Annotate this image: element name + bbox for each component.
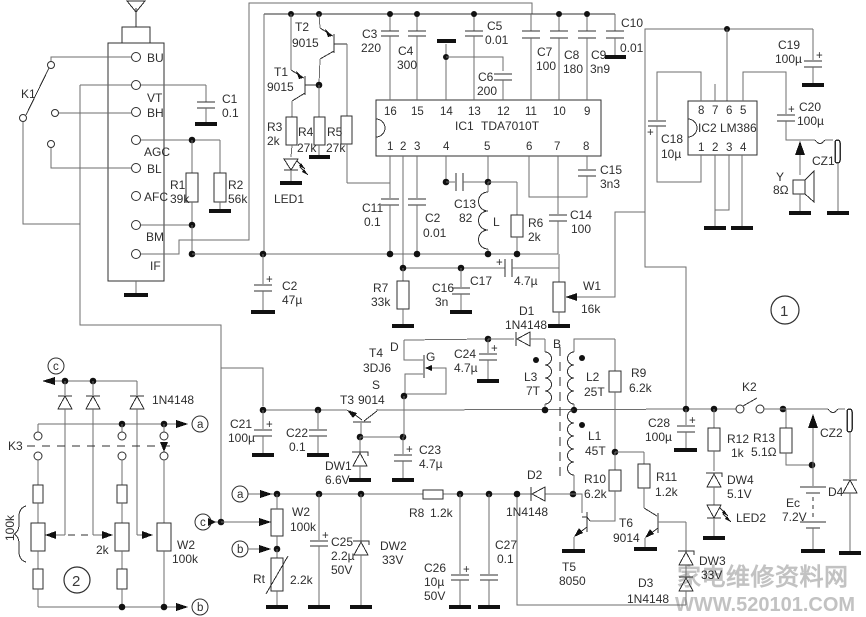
- circled c2: [195, 514, 221, 530]
- svg-text:BL: BL: [147, 162, 162, 176]
- node pin14: [443, 54, 449, 60]
- ground IC2 pin2: [704, 226, 726, 230]
- P3 wiper: [137, 531, 153, 539]
- svg-text:R4: R4: [298, 125, 314, 139]
- svg-text:+: +: [788, 104, 795, 116]
- ground under block: [124, 281, 148, 295]
- transistor T2: [292, 14, 347, 85]
- node C21: [260, 407, 267, 414]
- svg-text:CZ2: CZ2: [820, 426, 843, 440]
- node T1 base / T2 collector: [316, 82, 323, 117]
- svg-text:C17: C17: [470, 274, 492, 288]
- wire 268 line: [400, 265, 505, 272]
- svg-text:1k: 1k: [731, 446, 745, 460]
- svg-text:LM386: LM386: [720, 121, 757, 135]
- svg-text:VT: VT: [147, 91, 163, 105]
- circled b1: [192, 599, 208, 615]
- IC1 pin 14: [440, 44, 453, 118]
- svg-text:a: a: [237, 489, 244, 501]
- svg-text:39k: 39k: [170, 192, 190, 206]
- b line: [38, 603, 188, 611]
- svg-text:33V: 33V: [701, 568, 722, 582]
- svg-text:T4: T4: [369, 346, 383, 360]
- node C26: [457, 491, 464, 498]
- svg-text:4.7µ: 4.7µ: [454, 361, 478, 375]
- svg-text:4: 4: [740, 142, 747, 154]
- svg-text:16k: 16k: [581, 302, 601, 316]
- ground C25: [308, 605, 330, 609]
- svg-text:C5: C5: [487, 19, 503, 33]
- svg-text:300: 300: [397, 58, 417, 72]
- LED LED1: [274, 159, 308, 206]
- terminal BL: [132, 162, 163, 176]
- K3 pole 3: [160, 424, 168, 523]
- svg-text:100µ: 100µ: [645, 430, 672, 444]
- svg-text:7T: 7T: [526, 384, 541, 398]
- svg-text:b: b: [197, 602, 203, 614]
- svg-text:100: 100: [536, 59, 556, 73]
- node C22: [315, 407, 322, 414]
- svg-text:3n: 3n: [435, 295, 448, 309]
- svg-text:9: 9: [584, 106, 590, 118]
- ground C28: [674, 448, 697, 452]
- IC2 pin 6: [726, 105, 732, 117]
- svg-text:47µ: 47µ: [282, 293, 302, 307]
- svg-text:R10: R10: [584, 472, 606, 486]
- ground C16: [450, 310, 472, 314]
- resistor R6: [511, 182, 544, 254]
- svg-text:BM: BM: [146, 230, 164, 244]
- transistor T3: [340, 393, 385, 437]
- svg-text:W2: W2: [292, 505, 310, 519]
- svg-text:220: 220: [361, 41, 381, 55]
- node bus T2: [316, 11, 322, 17]
- svg-text:DW1: DW1: [325, 459, 352, 473]
- circled b2: [232, 541, 271, 557]
- svg-text:33k: 33k: [371, 295, 391, 309]
- svg-text:AFC: AFC: [144, 190, 168, 204]
- potentiometer W1: [553, 212, 645, 324]
- svg-text:R12: R12: [727, 432, 749, 446]
- svg-text:27k: 27k: [297, 141, 317, 155]
- svg-text:W2: W2: [177, 538, 195, 552]
- svg-text:C25: C25: [331, 535, 353, 549]
- wire D3 return: [517, 493, 686, 605]
- ground IC2 pin4: [731, 226, 753, 230]
- capacitor C6: [477, 70, 512, 100]
- svg-text:1: 1: [698, 142, 704, 154]
- svg-text:4.7µ: 4.7µ: [419, 457, 443, 471]
- node BM: [189, 222, 196, 254]
- svg-text:3n9: 3n9: [590, 62, 610, 76]
- svg-text:1: 1: [387, 141, 393, 153]
- resistor R8: [409, 490, 454, 520]
- svg-text:2: 2: [712, 142, 718, 154]
- resistor R12: [708, 409, 749, 471]
- svg-text:K2: K2: [742, 380, 757, 394]
- potentiometer P1 100k: [31, 485, 45, 607]
- svg-text:R6: R6: [528, 216, 544, 230]
- capacitor C2 47u: [254, 254, 302, 310]
- node D3 return: [514, 491, 521, 498]
- node bus C8: [556, 11, 562, 17]
- capacitor C18: [647, 72, 701, 182]
- IC2 pin 7: [712, 84, 718, 117]
- wire R5 to pin1 column: [347, 183, 390, 198]
- svg-text:100k: 100k: [172, 552, 199, 566]
- svg-text:100k: 100k: [290, 520, 317, 534]
- IC1 pin 16: [384, 36, 397, 118]
- svg-text:C16: C16: [432, 281, 454, 295]
- IC1 pin 1: [387, 141, 393, 153]
- IC1 pin 10: [553, 38, 566, 118]
- op-amp IC2 LM386 body: [688, 101, 757, 155]
- resistor R10: [584, 452, 621, 521]
- svg-text:9014: 9014: [358, 393, 385, 407]
- svg-text:+: +: [463, 564, 470, 576]
- svg-text:D2: D2: [527, 468, 543, 482]
- svg-text:+: +: [266, 274, 273, 286]
- svg-text:12: 12: [497, 106, 510, 118]
- svg-text:+: +: [491, 343, 498, 355]
- svg-text:1: 1: [780, 303, 788, 320]
- jack CZ1 break: [815, 140, 833, 144]
- ground D4: [839, 551, 861, 555]
- IC1 pin 6: [526, 141, 532, 153]
- wire pin14 to C6: [446, 57, 503, 71]
- zener DW3: [678, 522, 726, 582]
- svg-text:6: 6: [726, 105, 732, 117]
- IC1 pin 3: [414, 141, 420, 153]
- svg-text:W1: W1: [583, 279, 601, 293]
- ground C24: [477, 379, 499, 383]
- svg-text:DW4: DW4: [727, 473, 754, 487]
- transistor T1: [267, 14, 319, 117]
- terminal BU: [132, 51, 164, 65]
- resistor R2: [214, 140, 248, 209]
- svg-text:15: 15: [411, 106, 424, 118]
- tuner block: [108, 43, 164, 281]
- node sw2 top: [119, 421, 126, 428]
- wire pin2 down: [402, 156, 404, 268]
- IC1 pin 11: [525, 38, 537, 118]
- svg-text:Rt: Rt: [253, 572, 266, 586]
- antenna coupler box: [122, 27, 150, 43]
- svg-text:S: S: [372, 378, 380, 392]
- svg-text:R8: R8: [409, 506, 425, 520]
- svg-text:C11: C11: [362, 201, 383, 215]
- svg-text:7.2V: 7.2V: [782, 510, 807, 524]
- resistor R5: [326, 44, 352, 183]
- transformer core: [559, 347, 561, 480]
- node L3 rail: [542, 407, 549, 414]
- speaker arrow: [795, 141, 805, 175]
- wire pin6 to C15: [529, 156, 587, 197]
- ground C23: [392, 478, 414, 482]
- capacitor C1: [197, 85, 239, 122]
- capacitor C21: [228, 410, 273, 453]
- node bus C4: [414, 11, 420, 17]
- svg-text:6.2k: 6.2k: [629, 381, 653, 395]
- svg-text:8: 8: [698, 105, 704, 117]
- P1 wiper: [45, 531, 65, 539]
- resistor R1: [170, 140, 198, 225]
- svg-text:CZ1: CZ1: [812, 154, 835, 168]
- node bus C3: [387, 11, 393, 17]
- IC1 pin 2: [400, 141, 406, 153]
- transistor T5: [559, 491, 590, 588]
- node DW2: [358, 491, 365, 498]
- node R12: [711, 406, 718, 413]
- capacitor C11: [362, 199, 399, 254]
- svg-text:0.01: 0.01: [620, 41, 644, 55]
- svg-text:T5: T5: [562, 560, 576, 574]
- svg-text:+: +: [689, 415, 696, 427]
- svg-text:C27: C27: [495, 538, 517, 552]
- ground DW2: [350, 605, 372, 609]
- ground T6: [634, 547, 657, 551]
- wire BL to K1: [51, 148, 131, 168]
- switch K2: [736, 380, 764, 413]
- transistor T6: [613, 508, 686, 547]
- IC1 pin 7: [554, 141, 560, 153]
- svg-text:D3: D3: [638, 576, 654, 590]
- IC1 pin 5: [484, 141, 490, 153]
- svg-text:C28: C28: [648, 416, 670, 430]
- node C24: [485, 336, 492, 343]
- capacitor C13: [454, 173, 488, 225]
- diode group label 1N4148: [152, 393, 194, 407]
- ground C27: [478, 605, 500, 609]
- svg-text:2k: 2k: [267, 134, 281, 148]
- node C2p bus: [414, 251, 421, 258]
- svg-text:D4: D4: [828, 485, 844, 499]
- a feed line: [38, 420, 188, 428]
- terminal AGC: [132, 136, 171, 160]
- zener DW2: [353, 494, 407, 605]
- svg-text:11: 11: [525, 106, 537, 118]
- svg-text:C18: C18: [661, 132, 683, 146]
- resistor R9: [609, 339, 653, 452]
- svg-text:7: 7: [554, 141, 560, 153]
- svg-text:C21: C21: [230, 417, 252, 431]
- svg-text:100µ: 100µ: [228, 431, 255, 445]
- K3 dashed bar: [27, 445, 172, 447]
- svg-text:LED1: LED1: [274, 192, 304, 206]
- IC1 pin 4: [443, 141, 450, 153]
- svg-text:C23: C23: [419, 443, 441, 457]
- svg-text:4: 4: [443, 141, 450, 153]
- ground C22: [307, 453, 329, 457]
- svg-text:9015: 9015: [267, 80, 294, 94]
- capacitor C27: [480, 494, 517, 605]
- svg-text:c: c: [200, 517, 206, 529]
- diode D3: [627, 576, 693, 606]
- svg-text:2.2k: 2.2k: [290, 573, 314, 587]
- wire pin5 down: [485, 156, 517, 185]
- svg-text:R13: R13: [753, 431, 775, 445]
- capacitor C9: [578, 14, 610, 100]
- svg-text:+: +: [322, 530, 329, 542]
- winding L2: [568, 339, 616, 410]
- capacitor C14: [549, 208, 592, 254]
- svg-text:L3: L3: [524, 370, 538, 384]
- svg-text:82: 82: [459, 211, 473, 225]
- node L2 L1 rail: [571, 407, 577, 413]
- node W2r top: [274, 491, 281, 498]
- IC1 pin 12: [497, 106, 510, 118]
- svg-text:3DJ6: 3DJ6: [363, 361, 391, 375]
- CZ2 arrow: [808, 414, 818, 465]
- IC2 pin 2: [712, 142, 718, 154]
- svg-text:10µ: 10µ: [424, 575, 444, 589]
- wire BM: [141, 224, 192, 226]
- node c K1 feed: [218, 518, 271, 526]
- svg-text:BH: BH: [147, 106, 164, 120]
- svg-text:C1: C1: [222, 92, 238, 106]
- ground Ec: [801, 549, 825, 553]
- node sw3 top: [161, 421, 168, 428]
- zener DW4: [706, 473, 754, 505]
- node C11 bus: [387, 251, 394, 258]
- svg-text:Y: Y: [776, 170, 784, 184]
- winding L3: [524, 339, 552, 410]
- node C27: [486, 491, 493, 498]
- zener DW1: [325, 437, 368, 487]
- supply wire to IC2: [645, 29, 813, 406]
- svg-text:L1: L1: [588, 429, 602, 443]
- node R1/IF bus: [189, 251, 196, 258]
- node L bus: [485, 251, 492, 258]
- diode Da: [58, 381, 72, 535]
- pin14 stub bar: [437, 39, 456, 43]
- svg-text:D: D: [390, 340, 399, 354]
- speaker Y: [773, 170, 814, 211]
- capacitor C16: [432, 265, 470, 310]
- resistor R4: [297, 117, 325, 155]
- thermistor Rt: [253, 549, 314, 605]
- svg-text:5.1Ω: 5.1Ω: [751, 445, 777, 459]
- node bus C5: [471, 11, 477, 17]
- svg-text:AGC: AGC: [144, 145, 170, 159]
- svg-text:33V: 33V: [382, 553, 403, 567]
- circled a2: [232, 486, 272, 502]
- svg-text:C2: C2: [282, 279, 298, 293]
- IC2 pin 8: [698, 105, 704, 117]
- svg-text:C20: C20: [799, 100, 821, 114]
- svg-text:45T: 45T: [585, 444, 606, 458]
- node R9 R10 R11: [612, 449, 644, 456]
- svg-text:5.1V: 5.1V: [727, 487, 752, 501]
- wire VT branch to C21 rail: [221, 368, 263, 406]
- svg-text:1N4148: 1N4148: [627, 592, 669, 606]
- capacitor C26: [424, 494, 470, 605]
- diode Db: [86, 381, 100, 535]
- capacitor C10: [606, 14, 644, 55]
- wire IF out: [141, 3, 532, 254]
- capacitor C3: [361, 14, 399, 55]
- ground C19: [802, 83, 824, 87]
- svg-text:2: 2: [72, 573, 80, 590]
- svg-text:+: +: [647, 127, 654, 139]
- svg-text:C6: C6: [478, 70, 494, 84]
- svg-text:6.6V: 6.6V: [325, 473, 350, 487]
- node K2 out: [764, 406, 828, 413]
- circled a1: [192, 416, 208, 432]
- svg-text:8Ω: 8Ω: [773, 183, 789, 197]
- IC1 pin 15: [411, 36, 424, 118]
- capacitor C7: [522, 14, 556, 100]
- svg-text:0.1: 0.1: [222, 106, 239, 120]
- wire pin5 to C20: [743, 72, 786, 114]
- svg-text:IC1: IC1: [455, 119, 474, 133]
- node R6 bus: [514, 251, 521, 258]
- terminal AFC: [132, 190, 169, 204]
- capacitor C17: [470, 257, 559, 288]
- terminal BM: [132, 221, 165, 245]
- svg-text:3n3: 3n3: [600, 177, 620, 191]
- node P2 b: [119, 604, 126, 611]
- rail left segment: [263, 409, 347, 411]
- svg-text:6.2k: 6.2k: [584, 487, 608, 501]
- svg-text:9015: 9015: [292, 36, 319, 50]
- ground W1: [548, 324, 570, 328]
- svg-text:27k: 27k: [326, 141, 346, 155]
- terminal IF: [132, 250, 161, 274]
- svg-text:2k: 2k: [96, 543, 110, 557]
- ground DW1: [349, 478, 371, 482]
- svg-text:R2: R2: [228, 178, 244, 192]
- svg-text:c: c: [53, 361, 59, 373]
- node supply pin6: [724, 26, 730, 101]
- svg-text:0.01: 0.01: [423, 226, 447, 240]
- node diode1 top: [62, 378, 69, 385]
- transformer B label: [553, 337, 561, 351]
- svg-text:10: 10: [553, 106, 566, 118]
- svg-text:T6: T6: [619, 516, 633, 530]
- wire pin2 ground: [714, 155, 716, 226]
- ground C2 47u: [251, 310, 275, 314]
- rail right segment: [377, 409, 736, 410]
- node bus T1: [288, 11, 294, 17]
- terminal VT: [132, 81, 164, 106]
- svg-text:5: 5: [740, 105, 746, 117]
- P2 wiper: [93, 531, 113, 539]
- diode D4: [828, 480, 857, 551]
- op-amp IC1 TDA7010T body: [376, 100, 601, 156]
- svg-text:13: 13: [468, 106, 481, 118]
- battery Ec: [782, 465, 826, 549]
- terminal BH: [132, 106, 164, 120]
- svg-text:C26: C26: [424, 561, 446, 575]
- wire pin7 down: [557, 156, 559, 214]
- watermark: [675, 563, 855, 616]
- capacitor C22: [286, 410, 327, 454]
- wire AGC: [141, 139, 220, 141]
- svg-text:3: 3: [726, 142, 732, 154]
- svg-text:200: 200: [477, 84, 497, 98]
- svg-text:DW3: DW3: [699, 554, 726, 568]
- svg-text:Ec: Ec: [786, 496, 800, 510]
- svg-text:50V: 50V: [424, 589, 445, 603]
- circled 2: [64, 567, 90, 593]
- svg-text:0.1: 0.1: [497, 552, 514, 566]
- svg-text:5: 5: [484, 141, 490, 153]
- svg-text:+: +: [406, 444, 413, 456]
- K3 pole 1: [34, 424, 42, 485]
- wire pin8 down: [586, 156, 588, 169]
- node C28 supply: [683, 406, 690, 413]
